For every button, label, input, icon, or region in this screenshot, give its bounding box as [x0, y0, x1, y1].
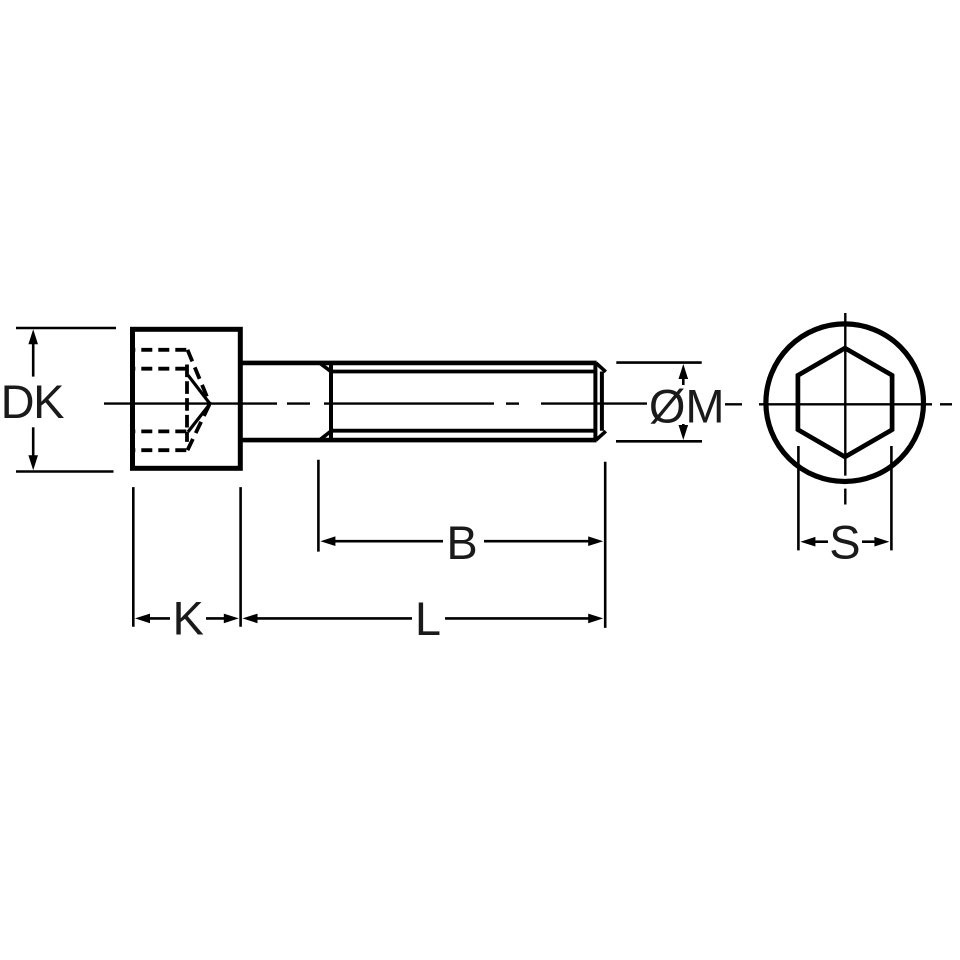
svg-text:K: K: [173, 591, 204, 644]
svg-text:ØM: ØM: [649, 380, 725, 433]
svg-text:S: S: [829, 516, 860, 569]
svg-text:DK: DK: [1, 375, 64, 428]
svg-text:L: L: [415, 592, 441, 645]
svg-text:B: B: [446, 516, 477, 569]
